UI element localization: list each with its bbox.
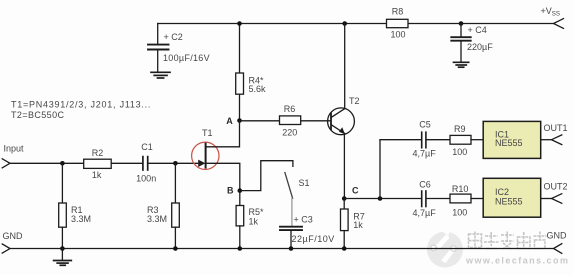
svg-text:C: C — [352, 186, 359, 196]
wire branch vertical — [379, 140, 381, 199]
GND left connector — [2, 231, 23, 253]
transistor T2 — [328, 96, 360, 135]
resistor R10 — [450, 184, 471, 217]
svg-text:NE555: NE555 — [495, 197, 523, 207]
svg-text:100n: 100n — [136, 174, 156, 184]
wire node C row — [344, 198, 421, 200]
svg-text:+ C4: + C4 — [468, 25, 487, 35]
wire C6 to R10 — [426, 198, 450, 200]
resistor R2 — [84, 148, 112, 180]
svg-text:R10: R10 — [452, 184, 469, 194]
svg-text:100µF/16V: 100µF/16V — [163, 53, 210, 63]
svg-text:+VSS: +VSS — [541, 6, 561, 18]
svg-text:100: 100 — [390, 30, 405, 40]
junction dot R3 / gnd — [173, 246, 178, 251]
ground symbol on gnd rail — [54, 249, 72, 266]
svg-text:NE555: NE555 — [495, 138, 523, 148]
OUT2 connector — [544, 182, 568, 204]
resistor R9 — [450, 124, 471, 157]
junction dot C3 / gnd — [289, 246, 294, 251]
IC1 NE555 — [483, 121, 541, 158]
svg-text:C6: C6 — [419, 180, 431, 190]
OUT1 connector — [544, 123, 568, 145]
resistor R6 — [280, 104, 301, 138]
resistor R5 — [236, 191, 264, 249]
resistor R7 — [341, 199, 365, 249]
capacitor C6 — [413, 180, 437, 218]
node B — [227, 186, 242, 196]
wire top supply rail — [158, 23, 387, 25]
svg-text:GND: GND — [547, 231, 568, 241]
svg-text:3.3M: 3.3M — [147, 214, 167, 224]
watermark logo — [427, 220, 463, 268]
wire T1 source to node B — [206, 163, 240, 190]
junction dot R1 / gnd — [60, 246, 65, 251]
wire C5 to R9 — [426, 139, 450, 141]
wire R9 to IC1 — [471, 139, 483, 141]
watermark chinese text — [469, 232, 547, 250]
resistor R4 — [236, 24, 266, 121]
wire input rail — [10, 162, 84, 164]
wire T2 emitter to node C — [343, 134, 345, 199]
svg-text:A: A — [226, 116, 233, 126]
junction dot T2 collector / top rail — [342, 21, 347, 26]
wire IC2 to OUT2 — [541, 198, 552, 200]
info text T1/T2 types — [11, 100, 151, 121]
svg-text:220µF: 220µF — [467, 42, 493, 52]
svg-text:B: B — [227, 186, 234, 196]
node C — [342, 186, 359, 201]
svg-text:22µF/10V: 22µF/10V — [292, 234, 335, 244]
wire upper row to C5 — [380, 139, 421, 141]
capacitor C3 — [280, 214, 335, 248]
svg-text:3.3M: 3.3M — [71, 214, 91, 224]
svg-text:R9: R9 — [454, 124, 466, 134]
node A — [226, 116, 242, 126]
svg-text:R5*: R5* — [249, 207, 265, 217]
input connector — [2, 144, 24, 168]
svg-text:T1=PN4391/2/3, J201, J113...: T1=PN4391/2/3, J201, J113... — [11, 100, 151, 110]
svg-text:4,7µF: 4,7µF — [413, 208, 437, 218]
capacitor C4 — [451, 24, 493, 62]
svg-text:1k: 1k — [353, 220, 363, 230]
svg-text:Input: Input — [4, 144, 25, 154]
power +Vss connector — [541, 6, 564, 28]
svg-text:R2: R2 — [92, 148, 104, 158]
wire T1 drain to node A — [206, 121, 240, 147]
svg-text:C1: C1 — [141, 142, 153, 152]
wire R6 to T2 base — [301, 120, 331, 122]
wire IC1 to OUT1 — [541, 139, 552, 141]
wire T2 collector to top rail — [344, 24, 346, 109]
svg-text:T1: T1 — [202, 128, 213, 138]
GND right connector — [547, 231, 568, 254]
ground symbol under C2 — [151, 72, 170, 78]
junction dot R4 / top rail — [237, 21, 242, 26]
svg-text:GND: GND — [3, 231, 24, 241]
svg-text:100: 100 — [452, 208, 467, 218]
junction dot R1 / input — [60, 161, 65, 166]
junction dot R3 / input — [173, 161, 178, 166]
junction dot C4 / top rail — [459, 21, 464, 26]
junction dot R5 / gnd — [238, 246, 243, 251]
svg-text:+ C2: + C2 — [164, 32, 183, 42]
wire R10 to IC2 — [471, 198, 483, 200]
wire S1 to C3 — [291, 198, 293, 226]
svg-text:100: 100 — [452, 147, 467, 157]
transistor T1 (JFET, red circled) — [192, 128, 219, 169]
svg-text:5.6k: 5.6k — [249, 84, 267, 94]
svg-text:S1: S1 — [299, 178, 310, 188]
svg-text:1k: 1k — [92, 170, 102, 180]
svg-text:IC2: IC2 — [495, 187, 509, 197]
svg-text:220: 220 — [282, 127, 297, 137]
ground symbol under C4 — [454, 62, 469, 67]
svg-text:www.elecfans.com: www.elecfans.com — [465, 256, 569, 266]
svg-text:T2: T2 — [349, 96, 360, 106]
IC2 NE555 — [483, 178, 541, 217]
wire node B to switch S1 — [242, 161, 293, 191]
svg-text:4,7µF: 4,7µF — [413, 148, 437, 158]
wire node A to R6 — [242, 120, 280, 122]
svg-text:R8: R8 — [392, 7, 404, 17]
svg-text:OUT2: OUT2 — [544, 182, 568, 192]
svg-text:T2=BC550C: T2=BC550C — [11, 110, 64, 120]
capacitor C5 — [413, 120, 437, 159]
capacitor C1 — [136, 142, 156, 184]
svg-text:R6: R6 — [284, 104, 296, 114]
resistor R8 — [387, 7, 409, 40]
resistor R1 — [59, 163, 91, 248]
junction dot R7 / gnd — [342, 246, 347, 251]
svg-text:1k: 1k — [249, 217, 259, 227]
svg-text:+ C3: + C3 — [294, 214, 313, 224]
wire input rail after C1 — [148, 162, 198, 164]
svg-text:OUT1: OUT1 — [544, 123, 568, 133]
capacitor C2 — [148, 24, 210, 72]
switch S1 — [285, 173, 310, 199]
wire input rail after R2 — [111, 162, 142, 164]
resistor R3 — [147, 163, 179, 248]
svg-text:C5: C5 — [419, 120, 431, 130]
junction dot branch to C5 row — [378, 196, 383, 201]
wire ground rail — [10, 248, 554, 250]
